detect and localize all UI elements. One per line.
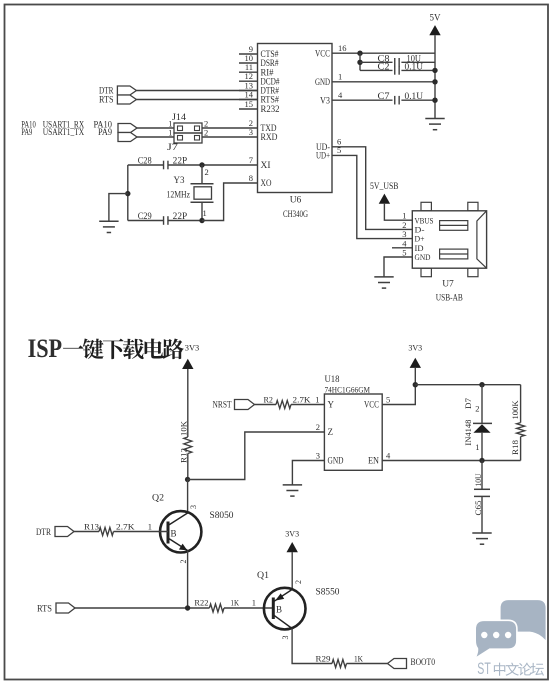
svg-text:1K: 1K [231,598,240,608]
wire GND pin to ground [384,257,412,277]
port PA9 [118,133,137,142]
U6 pin label CTS# [261,49,279,59]
capacitor C7 [395,96,399,105]
svg-text:GND: GND [315,77,330,87]
wire C65 top lead [481,461,483,490]
R29 value 1K [354,653,364,663]
svg-text:10U: 10U [473,474,483,487]
svg-text:NRST: NRST [213,401,232,411]
C28 refdes [138,156,152,166]
svg-text:IN4148: IN4148 [463,420,473,446]
R2 value 2.7K [293,395,312,405]
power 5V_USB symbol [370,181,399,204]
svg-text:2: 2 [294,580,303,584]
power 5V symbol [429,13,441,36]
U6 pin label DCD# [261,76,280,86]
U6 pin 9 number [249,44,253,54]
svg-text:4: 4 [386,450,391,460]
U7 refdes [442,279,454,289]
R13 value 2.7K [116,521,135,531]
wire R29 to BOOT0 [347,663,388,665]
svg-text:VCC: VCC [364,400,379,410]
wire junction to U18 Z [188,432,325,480]
resistor R2 [276,401,291,409]
svg-text:5: 5 [402,248,406,258]
wire Y3 top lead [201,165,203,184]
U6 pin 5 number [337,145,341,155]
svg-text:5: 5 [386,394,390,404]
svg-text:CH340G: CH340G [283,210,308,220]
wire PA9 to J7 pin1 [137,136,174,138]
svg-text:Y3: Y3 [174,175,185,185]
svg-text:Q1: Q1 [257,571,269,581]
node R12/Q2 junction [185,477,190,482]
connector J7 body [174,133,202,143]
svg-text:C28: C28 [138,156,152,166]
transistor Q1 [264,588,306,630]
Q2 pin1 number [148,521,152,531]
capacitor C2 [395,66,399,75]
wire EN row [382,460,520,462]
J7 pad 2 [195,136,200,141]
svg-text:GND: GND [415,252,431,262]
svg-text:V3: V3 [320,95,330,105]
U7 pin label GND [415,252,431,262]
U6 pin 14 number [245,89,254,99]
wire U18 GND to ground [292,461,324,485]
ground (crystal) [99,221,118,232]
svg-text:Z: Z [328,427,334,437]
svg-text:10K: 10K [178,420,188,436]
J14 pad 2 [195,126,200,131]
power 3V3 symbol (Q1) [285,530,299,553]
C8 value 10U [407,53,422,63]
capacitor C29 [164,216,168,225]
svg-text:12MHz: 12MHz [167,190,191,200]
svg-text:PA9: PA9 [98,127,112,137]
svg-text:D7: D7 [463,398,473,409]
DTR label (bottom) [36,528,52,538]
svg-text:5V_USB: 5V_USB [370,181,399,191]
connector J14 body [174,123,202,133]
Q2 pin2 number [179,560,188,564]
U6 pin label RTS# [261,95,280,105]
U7 value USB-AB [436,293,463,303]
svg-text:R29: R29 [316,653,331,663]
svg-text:J14: J14 [172,112,187,122]
U6 pin 14 RTS# stub [239,99,258,101]
svg-text:RTS: RTS [99,96,114,106]
title ISP one-key download circuit [28,334,184,363]
DTR label [99,87,114,97]
svg-text:2: 2 [179,560,188,564]
U7 contact slot lower [440,249,468,259]
U6 pin label VCC [315,48,330,58]
port NRST [235,400,255,410]
resistor R13 [99,528,113,536]
wire DTR to R13 [74,531,99,533]
wire R13 to Q2 base [114,531,169,533]
U18 pin3 number [316,450,320,460]
wire cap feed [359,53,361,70]
svg-text:16: 16 [338,43,347,53]
svg-text:RXD: RXD [261,132,278,142]
U18 pin label Y [328,400,335,410]
U7 pin5 number [402,248,406,258]
svg-text:1: 1 [252,598,256,608]
svg-text:B: B [276,605,282,615]
transistor Q2 [160,511,201,552]
svg-text:XI: XI [261,160,271,170]
Y3 value 12MHz [167,190,191,200]
ground (USB) [374,277,393,288]
svg-text:100K: 100K [510,400,520,420]
U6 pin label R232 [261,104,280,114]
wire C28 row to U6 XI [128,164,258,166]
wire 3V3 to R12 [187,369,189,437]
svg-text:15: 15 [245,99,254,109]
wire R18 column [520,385,522,461]
crystal Y3 [191,184,214,203]
connector J14 label [172,112,187,122]
wire V3/C7 row [332,99,435,101]
U6 pin 15 number [245,99,254,109]
watermark text ST Chinese forum [477,659,544,678]
U7 pin2 number [402,220,406,230]
svg-text:DTR: DTR [36,528,52,538]
U7 pin label VBUS [415,215,434,225]
Q2 value S8050 [210,511,234,521]
U6 pin 10 DSR# stub [239,62,258,64]
svg-text:3V3: 3V3 [185,344,200,353]
U7 mounting tab bottom-left [421,268,431,277]
Q1 pin2 number [294,580,303,584]
NRST label [213,401,232,411]
node C8 tap [357,60,362,65]
U7 mounting tab top-right [468,202,478,211]
U6 refdes label [290,196,302,206]
Y3 pin 2 number [205,167,209,177]
U7 shell side face [477,211,487,268]
U6 pin label RXD [261,132,278,142]
U6 value label CH340G [283,210,308,220]
C8 refdes [378,53,391,63]
wire D7 anode lead [481,385,483,424]
resistor R12 [184,437,192,454]
C29 value 22P [173,211,188,221]
node EN/D7/C65 junction [479,458,484,463]
U7 pin label D- [415,225,425,235]
wire VCC row [332,52,435,54]
U6 pin 3 number [249,127,253,137]
svg-text:USART1_TX: USART1_TX [43,127,85,137]
D7 pin1 number [475,442,479,452]
U6 pin label DSR# [261,58,279,68]
svg-text:R2: R2 [264,395,274,405]
U6 pin 12 number [245,71,254,81]
svg-text:J7: J7 [167,142,179,152]
svg-text:XO: XO [261,178,272,188]
IC U6 CH340G body [258,44,333,193]
svg-text:5V: 5V [430,13,442,23]
U18 pin5 number [386,394,390,404]
Q2 refdes [152,494,164,504]
R22 value 1K [231,598,240,608]
diode D7 [473,423,492,460]
U18 pin1 number [315,394,319,404]
U6 pin 12 DCD# stub [239,80,258,82]
wire 3V3 to VCC [382,368,415,405]
wire Y3 pin1 to U6 XO [202,183,258,221]
svg-text:2.7K: 2.7K [116,521,135,531]
U6 pin label DTR# [261,86,280,96]
wire GND row [332,81,435,83]
U6 pin label UD- [316,142,330,152]
U6 pin 13 DTR# stub [239,90,258,92]
svg-text:1: 1 [315,394,319,404]
Q1 pin3 number [281,636,290,640]
C65 value 10U [473,474,483,487]
svg-text:2: 2 [205,167,209,177]
svg-text:RTS: RTS [37,604,52,614]
J7 pin2 number [204,128,208,138]
J7 pin1 number [168,128,172,138]
U7 pin1 number [402,211,406,221]
node Q2 emitter junction [185,605,190,610]
U6 pin 6 number [337,137,341,147]
svg-text:3: 3 [281,636,290,640]
svg-text:1: 1 [203,208,207,218]
svg-text:R22: R22 [194,598,208,608]
port BOOT0 [388,659,407,669]
svg-text:PA9: PA9 [21,127,32,137]
R18 refdes [510,440,520,455]
svg-text:S8050: S8050 [210,511,234,521]
Q1 refdes [257,571,269,581]
node 3V3 rail junction [413,382,418,387]
svg-text:2: 2 [204,128,208,138]
svg-text:3: 3 [189,505,198,509]
ground (U18) [283,485,302,496]
svg-text:EN: EN [368,456,379,466]
svg-text:R232: R232 [261,104,280,114]
node GND junction [432,79,437,84]
resistor R18 [517,423,525,437]
R18 value 100K [510,400,520,420]
wire Q2 collector [187,480,189,514]
wire R2 to U18 Y [291,404,324,406]
C2 refdes [378,62,390,72]
wire 3V3 to Q1 emitter [291,552,293,589]
svg-text:Q2: Q2 [152,494,164,504]
svg-text:R13: R13 [84,521,99,531]
svg-text:Y: Y [328,400,335,410]
RTS label [99,96,114,106]
R22 refdes [194,598,208,608]
wire 3V3 rail [415,384,520,386]
svg-text:VCC: VCC [315,48,330,58]
U18 refdes [325,374,340,384]
U6 pin label XO [261,178,272,188]
svg-text:GND: GND [328,456,344,466]
svg-text:RTS#: RTS# [261,95,280,105]
C2 value 0.1U [405,62,424,72]
U6 pin 11 number [245,62,253,72]
wire RTS row [75,607,209,609]
ground (C65) [472,533,491,544]
U7 pin4 number [402,238,407,248]
wire PA10 to J14 pin1 [137,127,174,129]
svg-text:1: 1 [338,72,342,82]
svg-text:8: 8 [249,173,253,183]
U7 mounting tab top-left [421,202,431,211]
power 3V3 symbol (R12) [182,344,199,369]
node Y3 pin1 junction [199,218,204,223]
J14 pad 1 [178,126,183,131]
svg-text:0.1U: 0.1U [405,91,424,101]
power 3V3 symbol (U18) [408,344,422,368]
U6 pin label TXD [261,123,277,133]
node crystal ground tap [125,191,130,196]
wire 5V stem and ground rail [434,35,436,118]
U7 mounting tab bottom-right [468,268,478,277]
node C2 ground junction [432,68,437,73]
node D7 top junction [479,382,484,387]
U6 pin 13 number [245,80,254,90]
wire DTR to U6 pin13 [136,90,257,92]
node Y3 pin2 junction [199,162,204,167]
U18 pin label Z [328,427,334,437]
wire J7 pin2 to U6 RXD [202,136,258,138]
U6 pin 15 R232 stub [239,108,258,110]
svg-text:2.7K: 2.7K [293,395,312,405]
wire J14 pin2 to U6 TXD [202,127,258,129]
watermark back bubble [501,600,546,640]
svg-text:UD+: UD+ [316,151,330,161]
Y3 pin 1 number [203,208,207,218]
U6 pin 10 number [245,53,254,63]
Q2 base label B [171,529,177,539]
wire R12 to junction [187,454,189,480]
svg-text:ISP: ISP [28,334,63,363]
Q1 value S8550 [316,588,340,598]
capacitor C8 [395,58,399,67]
U18 pin label EN [368,456,379,466]
U7 pin3 number [402,229,406,239]
svg-text:R12: R12 [178,448,188,463]
wire C2 row [360,69,435,71]
J7 pad 1 [178,136,183,141]
svg-text:3V3: 3V3 [285,530,299,539]
U6 pin 7 number [249,155,253,165]
svg-text:S8550: S8550 [316,588,340,598]
U6 pin 9 CTS# stub [239,53,258,55]
C7 value 0.1U [405,91,424,101]
capacitor C28 [164,161,168,170]
U18 pin4 number [386,450,391,460]
U6 pin 2 number [249,118,253,128]
U7 pin4 ID stub [392,247,412,249]
svg-text:C2: C2 [378,62,390,72]
port DTR (top) [117,86,136,95]
U6 pin label GND [315,77,330,87]
svg-text:7: 7 [249,155,253,165]
svg-text:1K: 1K [354,653,364,663]
svg-text:4: 4 [338,90,343,100]
svg-text:C29: C29 [138,211,152,221]
C7 refdes [378,91,391,101]
wire RTS to U6 pin14 [136,99,257,101]
ground (decoupling) [425,119,444,130]
U7 pin label D+ [415,234,425,244]
U6 pin label RI# [261,67,274,77]
U6 pin 4 number [338,90,343,100]
svg-text:B: B [171,529,177,539]
Q1 base label B [276,605,282,615]
U6 pin 1 number [338,72,342,82]
node C7 ground junction [432,98,437,103]
wire Q1 collector to R29 [292,629,332,664]
IC U18 74HC1G66GM body [324,394,382,470]
wire Y3 bottom lead [201,202,203,220]
connector J7 label [167,142,179,152]
wire 5V_USB to VBUS [384,204,412,220]
wire R22 to Q1 base [224,607,273,609]
port DTR (bottom) [55,527,74,537]
Q2 pin3 number [189,505,198,509]
D7 refdes [463,398,473,409]
svg-text:22P: 22P [173,156,188,166]
svg-text:1: 1 [168,128,172,138]
connector U7 body [412,211,486,268]
BOOT0 label [411,658,436,668]
svg-text:U7: U7 [442,279,454,289]
U18 pin label VCC [364,400,379,410]
resistor R29 [332,660,346,668]
U6 pin 11 RI# stub [239,71,258,73]
U6 pin label UD+ [316,151,330,161]
svg-text:2: 2 [316,422,320,432]
port PA10 [118,124,137,133]
svg-text:3V3: 3V3 [408,344,422,353]
U6 pin 8 number [249,173,253,183]
wire UD+ to D+ [332,155,412,238]
wire C8 row [360,61,435,63]
svg-text:22P: 22P [173,211,188,221]
svg-text:1: 1 [475,442,479,452]
watermark front bubble [476,621,516,657]
U7 pin label ID [415,243,424,253]
J14 pin2 number [204,119,208,129]
port RTS (bottom) [56,603,75,613]
C29 refdes [138,211,152,221]
R12 refdes [178,448,188,463]
wire UD- to D- [332,147,412,230]
svg-text:U18: U18 [325,374,340,384]
C28 value 22P [173,156,188,166]
Y3 refdes [174,175,185,185]
D7 value IN4148 [463,420,473,446]
U18 value 74HC1G66GM [325,384,371,394]
node VCC junction [357,51,362,56]
wire C29 row [128,220,202,222]
R2 refdes [264,395,274,405]
wire crystal left rail [127,165,129,221]
U7 contact slot upper [440,221,468,231]
U18 pin label GND [328,456,344,466]
svg-text:1: 1 [148,521,152,531]
R12 value 10K [178,420,188,436]
